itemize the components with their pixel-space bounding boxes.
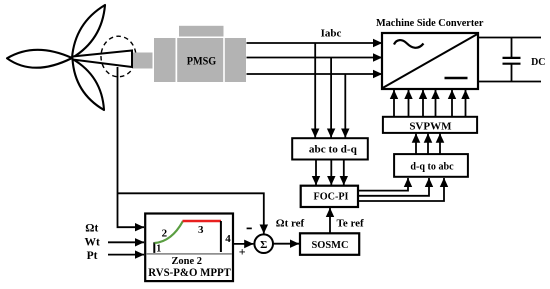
- svg-text:SOSMC: SOSMC: [312, 239, 349, 251]
- arrows from d-q to abc up to SVPWM (3): [416, 134, 440, 154]
- block SVPWM: [383, 117, 477, 133]
- wire phase line a from PMSG to converter: [247, 42, 383, 44]
- arrows from abc to d-q down into FOC-PI (3): [316, 160, 344, 186]
- block FOC-PI: [301, 186, 358, 207]
- svg-text:d-q to abc: d-q to abc: [410, 161, 453, 173]
- svg-text:Ωt: Ωt: [85, 223, 98, 235]
- wire DC bus top: [478, 37, 541, 39]
- wire FOC-PI output 3 to d-q to abc: [358, 178, 444, 201]
- wire current measurement drop c to abc-to-dq: [344, 74, 346, 138]
- MPPT graph zone 2 green curve: [155, 221, 183, 243]
- svg-text:Σ: Σ: [260, 239, 267, 251]
- converter DC bar symbol: [445, 77, 468, 80]
- block abc to d-q: [292, 138, 368, 159]
- wire phase line b from PMSG to converter: [247, 57, 383, 59]
- svg-text:1: 1: [156, 244, 161, 255]
- block Zone 2 RVS-P&O MPPT: [145, 214, 233, 282]
- wire current measurement drop b to abc-to-dq: [330, 58, 332, 138]
- wire feedback branch to summing junction (minus input): [118, 193, 264, 233]
- block SOSMC: [300, 233, 359, 255]
- converter diagonal: [383, 34, 477, 88]
- svg-text:FOC-PI: FOC-PI: [314, 191, 349, 203]
- wire FOC-PI output 1 to d-q to abc: [358, 178, 408, 191]
- capacitor C1 on DC bus: [503, 38, 521, 82]
- wire summing junction output to SOSMC: [273, 243, 299, 245]
- svg-text:SVPWM: SVPWM: [409, 121, 452, 133]
- svg-text:3: 3: [198, 224, 204, 236]
- svg-text:PMSG: PMSG: [187, 56, 217, 68]
- svg-text:abc to d-q: abc to d-q: [309, 143, 358, 155]
- MPPT graph zone 3 red line: [183, 220, 222, 222]
- wind turbine blade (left): [7, 50, 72, 68]
- wire Pt input arrow into MPPT: [108, 254, 144, 256]
- svg-text:4: 4: [225, 233, 231, 245]
- MPPT graph zone 4 vertical line: [220, 221, 222, 252]
- turbine shaft (tapered): [73, 51, 133, 68]
- converter U1 box: [382, 33, 478, 89]
- gate drive arrows from SVPWM to converter (6): [394, 90, 466, 116]
- generator left end cap (gray): [154, 38, 176, 82]
- wire current measurement drop a to abc-to-dq: [314, 43, 316, 138]
- svg-text:Wt: Wt: [85, 236, 101, 248]
- svg-text:RVS-P&O MPPT: RVS-P&O MPPT: [148, 265, 231, 279]
- MPPT graph zone 1 vertical tick: [153, 242, 155, 253]
- svg-text:Machine Side Converter: Machine Side Converter: [376, 17, 484, 29]
- MPPT graph gray axis line: [146, 253, 232, 255]
- svg-text:DC: DC: [531, 57, 545, 68]
- wind turbine blade (top): [72, 5, 105, 58]
- label minus sign at summing junction: [247, 227, 252, 229]
- wire Ωt speed feedback from shaft down and into MPPT block: [118, 67, 145, 227]
- svg-text:+: +: [239, 245, 246, 259]
- wind turbine blade (bottom): [73, 59, 105, 110]
- generator right end cap (gray): [225, 38, 246, 82]
- dashed circle around shaft (rotor speed measurement): [101, 36, 136, 77]
- svg-text:2: 2: [162, 227, 168, 239]
- svg-text:Iabc: Iabc: [321, 28, 342, 40]
- wire DC bus bottom: [478, 81, 541, 83]
- wire phase line c from PMSG to converter: [247, 73, 383, 75]
- wire Te ref from SOSMC up to FOC-PI: [329, 208, 331, 233]
- shaft coupling (gray): [133, 53, 153, 69]
- converter AC sine symbol: [394, 40, 424, 48]
- generator body PMSG (gray): [177, 38, 223, 82]
- svg-text:Pt: Pt: [87, 250, 98, 262]
- summing junction Σ: [254, 234, 273, 253]
- generator terminal box (gray, top): [179, 26, 224, 37]
- wire MPPT output to summing junction (plus input): [233, 243, 253, 245]
- svg-text:Ωt ref: Ωt ref: [276, 218, 305, 230]
- wire FOC-PI output 2 to d-q to abc: [358, 178, 429, 196]
- block d-q to abc: [394, 154, 468, 177]
- svg-text:Te ref: Te ref: [337, 218, 365, 230]
- wire Wt input arrow into MPPT: [108, 241, 144, 243]
